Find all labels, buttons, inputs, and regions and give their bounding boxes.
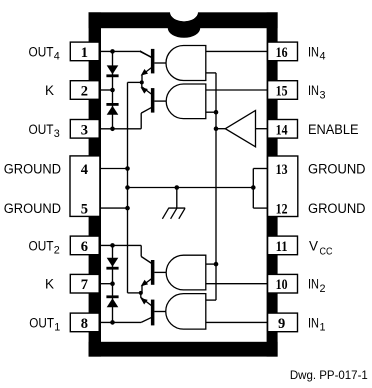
svg-text:7: 7	[81, 277, 88, 293]
svg-text:IN: IN	[308, 315, 319, 330]
svg-text:CC: CC	[320, 247, 333, 258]
svg-text:OUT: OUT	[29, 44, 54, 59]
svg-text:GROUND: GROUND	[308, 201, 366, 216]
svg-text:OUT: OUT	[29, 238, 54, 253]
svg-text:2: 2	[320, 283, 326, 295]
svg-text:5: 5	[81, 202, 88, 218]
svg-text:K: K	[45, 83, 54, 98]
svg-text:2: 2	[54, 245, 60, 257]
svg-text:3: 3	[320, 89, 326, 101]
svg-text:15: 15	[276, 84, 288, 100]
svg-text:10: 10	[276, 277, 288, 293]
svg-text:2: 2	[81, 84, 88, 100]
svg-text:K: K	[45, 277, 54, 292]
svg-text:14: 14	[276, 122, 288, 138]
svg-text:GROUND: GROUND	[4, 201, 61, 216]
svg-text:16: 16	[276, 45, 288, 61]
svg-text:11: 11	[276, 239, 288, 255]
svg-text:8: 8	[81, 316, 88, 332]
svg-text:1: 1	[54, 322, 60, 334]
svg-text:Dwg. PP-017-1: Dwg. PP-017-1	[290, 369, 368, 382]
svg-text:IN: IN	[308, 277, 319, 292]
svg-text:ENABLE: ENABLE	[308, 122, 359, 137]
svg-text:9: 9	[278, 316, 285, 332]
svg-text:OUT: OUT	[29, 122, 54, 137]
svg-text:4: 4	[320, 51, 326, 63]
svg-text:13: 13	[276, 162, 288, 178]
svg-text:V: V	[309, 238, 318, 253]
svg-text:4: 4	[54, 51, 60, 63]
svg-text:4: 4	[81, 162, 88, 178]
svg-text:3: 3	[81, 122, 88, 138]
svg-text:IN: IN	[308, 44, 319, 59]
svg-text:OUT: OUT	[29, 315, 54, 330]
svg-text:12: 12	[276, 202, 288, 218]
svg-text:6: 6	[81, 239, 88, 255]
svg-text:GROUND: GROUND	[4, 162, 61, 177]
svg-text:IN: IN	[308, 83, 319, 98]
svg-text:1: 1	[81, 45, 88, 61]
svg-text:3: 3	[54, 128, 60, 140]
svg-text:GROUND: GROUND	[308, 162, 366, 177]
svg-text:1: 1	[320, 322, 326, 334]
